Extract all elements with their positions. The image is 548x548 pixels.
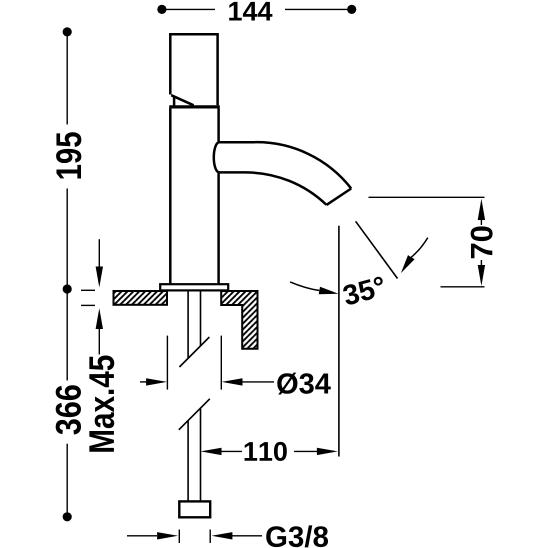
110 right extension / vertical ref line	[338, 226, 340, 457]
cartridge cap line	[169, 105, 220, 108]
deck left slab (hatched)	[114, 291, 168, 305]
dim 195 (left)	[56, 27, 81, 293]
text 35deg	[342, 276, 387, 306]
dim 144 (top)	[157, 2, 356, 21]
dim G3/8	[127, 525, 328, 547]
deck right piece (hatched L)	[221, 291, 257, 349]
threaded rod lower segment	[188, 408, 200, 501]
faucet body	[170, 109, 218, 285]
spout	[214, 142, 351, 205]
break line 1	[179, 337, 209, 367]
threaded rod upper segment	[188, 291, 200, 358]
dim 70 (right)	[369, 197, 493, 286]
dim Max.45	[81, 239, 114, 451]
dim O34	[140, 336, 331, 395]
break line 2	[179, 399, 210, 430]
35 deg stream line	[356, 221, 398, 278]
dim 366 (left lower)	[56, 289, 81, 521]
nut	[179, 501, 210, 517]
dim 110	[201, 442, 338, 461]
flange (base escutcheon)	[160, 284, 228, 290]
35 deg arc right	[401, 238, 428, 274]
faucet handle	[170, 34, 217, 106]
35 deg arc left	[290, 282, 338, 294]
